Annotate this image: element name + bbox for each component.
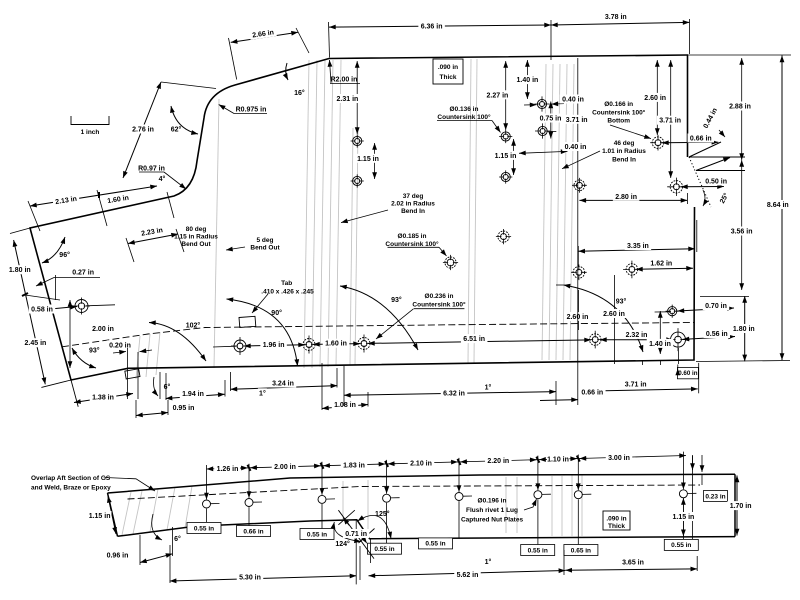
svg-text:0.55 in: 0.55 in [528, 547, 548, 554]
dim 3.71 in bottom [579, 389, 697, 391]
svg-text:Tab: Tab [281, 280, 292, 287]
svg-text:1.15 in: 1.15 in [89, 513, 111, 520]
dim 0.75 in [550, 102, 552, 139]
hole H20 countersink [589, 334, 601, 346]
svg-text:2.76 in: 2.76 in [132, 126, 154, 133]
bend line (gray) bottom view cluster [122, 492, 131, 535]
dim 0.56 in [683, 337, 736, 340]
left edge extension below corner [71, 380, 78, 407]
svg-text:6.36 in: 6.36 in [421, 23, 443, 30]
svg-text:0.23 in: 0.23 in [705, 493, 725, 500]
dim 8.64 in [781, 56, 783, 361]
dim 0.66 in notch [662, 141, 718, 144]
dim 1.40 in right [659, 311, 661, 354]
dim 2.66 in [231, 32, 298, 42]
thickness note box main [433, 59, 463, 84]
top-left edge extension [10, 228, 30, 234]
svg-text:Ø0.236 in: Ø0.236 in [425, 293, 454, 300]
hole H8 [501, 172, 510, 181]
dim 3.65 in [565, 569, 697, 570]
svg-text:Ø0.185 in: Ø0.185 in [398, 233, 427, 240]
dim 1.62 in [636, 268, 693, 269]
svg-text:1°: 1° [485, 558, 492, 566]
svg-text:6°: 6° [164, 383, 171, 391]
svg-text:5.62 in: 5.62 in [457, 572, 479, 579]
strip hole S6 [534, 491, 542, 499]
dim 1.80 in right [744, 296, 746, 361]
dim 5.62 in [369, 571, 566, 576]
svg-text:0.50 in: 0.50 in [705, 178, 727, 185]
svg-text:93°: 93° [89, 346, 100, 354]
main part right edge upper [687, 55, 689, 157]
dim 0.66 in bottom [540, 399, 578, 402]
dim 1.08 in [322, 405, 368, 409]
svg-text:Ø0.166 in: Ø0.166 in [604, 101, 633, 108]
svg-text:125°: 125° [375, 510, 390, 518]
svg-text:1.70 in: 1.70 in [730, 503, 752, 510]
svg-text:1.62 in: 1.62 in [650, 260, 672, 267]
svg-text:102°: 102° [186, 321, 201, 329]
svg-text:3.65 in: 3.65 in [622, 559, 644, 566]
svg-text:0.66 in: 0.66 in [581, 389, 603, 396]
svg-text:Ø0.196 in: Ø0.196 in [478, 497, 507, 504]
strip top dim chain [207, 456, 687, 470]
extension lines strip holes [206, 465, 208, 499]
svg-text:1.08 in: 1.08 in [334, 402, 356, 409]
svg-text:0.71 in: 0.71 in [345, 531, 367, 538]
svg-text:1.26 in: 1.26 in [217, 466, 239, 473]
svg-text:124°: 124° [335, 540, 350, 548]
svg-text:R2.00 in: R2.00 in [331, 76, 358, 83]
right notch 25 deg bend line dotted [689, 157, 711, 207]
svg-text:.410 x .426 x .245: .410 x .426 x .245 [261, 288, 314, 295]
dim 0.20 in tab [107, 340, 134, 349]
svg-text:2.80 in: 2.80 in [615, 194, 637, 201]
svg-text:0.55 in: 0.55 in [307, 531, 327, 538]
scale bar 1 inch [71, 116, 109, 125]
hole H10 [538, 126, 547, 135]
hole H3 countersink [303, 339, 315, 351]
dim 0.50 in notch [681, 186, 724, 188]
svg-text:96°: 96° [59, 251, 70, 259]
svg-text:3.35 in: 3.35 in [627, 243, 649, 250]
dim 1.40 in top [526, 60, 528, 99]
right notch horizontal lower [696, 170, 745, 172]
svg-text:62°: 62° [171, 125, 182, 133]
svg-text:0.58 in: 0.58 in [31, 306, 53, 313]
svg-text:2.02 in Radius: 2.02 in Radius [391, 200, 435, 207]
svg-text:0.66 in: 0.66 in [690, 135, 712, 142]
hole H16 nutplate [626, 264, 638, 276]
hole H21 [498, 231, 509, 242]
svg-text:3.71 in: 3.71 in [659, 118, 681, 125]
svg-text:Thick: Thick [440, 74, 457, 81]
dim 0.71 in strip [343, 529, 370, 538]
dim 3.35 in [578, 249, 695, 252]
svg-text:R0.975 in: R0.975 in [236, 106, 267, 113]
svg-text:1 inch: 1 inch [81, 129, 100, 136]
svg-text:0.40 in: 0.40 in [565, 144, 587, 151]
svg-text:Countersink 100°: Countersink 100° [592, 108, 646, 116]
svg-text:1.15 in: 1.15 in [673, 514, 695, 521]
svg-text:1.94 in: 1.94 in [182, 391, 204, 398]
strip bottom edge [118, 520, 736, 539]
strip hole S3 [318, 495, 326, 503]
svg-text:1.15 in Radius: 1.15 in Radius [174, 233, 218, 240]
svg-text:0.55 in: 0.55 in [374, 546, 394, 553]
hole H15 [573, 267, 585, 279]
right notch tab edge lower [696, 158, 730, 171]
svg-text:3.78 in: 3.78 in [605, 14, 627, 21]
svg-text:2.31 in: 2.31 in [337, 96, 359, 103]
strip hole S7 [574, 491, 582, 499]
strip hole S5 [455, 493, 463, 501]
dim 0.58 in [29, 307, 77, 312]
dim 1.96 in [244, 345, 305, 346]
svg-text:5 deg: 5 deg [257, 237, 274, 244]
svg-text:0.66 in: 0.66 in [243, 528, 263, 535]
angle 62 deg [171, 106, 198, 134]
svg-text:3.56 in: 3.56 in [731, 228, 753, 235]
dim 1.15 in strip right [682, 498, 684, 536]
dim 0.44 in rotated [700, 104, 720, 132]
line left of H2 [213, 345, 236, 348]
dim 0.23 in [704, 491, 728, 502]
strip hole S1 [203, 500, 211, 508]
svg-text:2.20 in: 2.20 in [487, 458, 509, 465]
dim 0.60 in boxed [677, 367, 698, 378]
svg-text:.090 in: .090 in [606, 515, 626, 522]
dim 2.13 in / 1.60 in [30, 186, 157, 206]
svg-text:Bend In: Bend In [612, 156, 636, 163]
dim 3.78 in [551, 22, 690, 25]
hole H11 [574, 180, 585, 191]
0.55 boxes [187, 523, 221, 534]
chain junction arrows [240, 467, 248, 469]
svg-text:Ø0.136 in: Ø0.136 in [450, 106, 479, 113]
hole H5 [353, 136, 362, 145]
line right of H1 [86, 305, 115, 306]
hole H2 countersink [234, 340, 246, 352]
dim 6.32 in [344, 392, 556, 396]
dim 3.24 in [231, 386, 338, 390]
right notch horizontal upper [689, 156, 745, 158]
svg-text:Bend Out: Bend Out [181, 241, 211, 248]
svg-text:3.71 in: 3.71 in [566, 117, 588, 124]
svg-text:Flush rivet 1 Lug: Flush rivet 1 Lug [466, 507, 518, 514]
dim 1.15 in strip left [108, 496, 116, 534]
svg-text:3.24 in: 3.24 in [272, 380, 294, 387]
svg-text:0.55 in: 0.55 in [425, 541, 445, 548]
dim 0.40 in top [524, 104, 537, 106]
svg-text:8.64 in: 8.64 in [767, 202, 789, 209]
svg-text:4°: 4° [159, 175, 166, 183]
dim 1.15 in left holes [374, 143, 376, 179]
svg-text:2.60 in: 2.60 in [644, 95, 666, 102]
thickness note box strip [603, 511, 630, 530]
hole H12 countersink bottom [652, 137, 664, 149]
hole H6 [353, 176, 362, 185]
svg-text:0.60 in: 0.60 in [678, 370, 697, 377]
tab rectangle [239, 316, 256, 327]
svg-text:2.32 in: 2.32 in [626, 332, 648, 339]
svg-text:Countersink 100°: Countersink 100° [437, 113, 491, 121]
svg-text:0.56 in: 0.56 in [706, 331, 728, 338]
svg-text:0.75 in: 0.75 in [540, 115, 562, 122]
dim 1.38 in [74, 394, 133, 403]
angle 6 deg [163, 382, 172, 391]
dim 2.60 in right [601, 309, 628, 318]
dim 1.15 in center holes [513, 139, 515, 175]
dim 2.27 in [505, 61, 507, 130]
dim 0.96 in [140, 554, 173, 563]
svg-text:6.51 in: 6.51 in [463, 336, 485, 343]
hole H7 countersink [501, 132, 510, 141]
svg-text:and Weld, Braze or Epoxy: and Weld, Braze or Epoxy [31, 484, 111, 491]
svg-text:1.40 in: 1.40 in [517, 77, 539, 84]
dim 0.40 in second [519, 151, 568, 153]
strip right end edge [734, 474, 736, 536]
dim 0.95 in [136, 413, 168, 416]
svg-text:1°: 1° [259, 389, 266, 397]
dim 5.30 in [170, 576, 357, 581]
angle 6 deg strip [173, 534, 182, 543]
svg-text:0.55 in: 0.55 in [194, 525, 214, 532]
svg-text:93°: 93° [616, 297, 627, 305]
dim 2.60 in left [578, 290, 580, 330]
dim 2.00 in [69, 300, 71, 368]
svg-text:46 deg: 46 deg [614, 140, 635, 147]
svg-text:5.30 in: 5.30 in [239, 575, 261, 582]
extension lines top dims [329, 22, 330, 58]
dim 1.94 in [166, 394, 225, 398]
svg-text:1.83 in: 1.83 in [343, 462, 365, 469]
strip left end edge [108, 493, 118, 536]
svg-text:1.60 in: 1.60 in [325, 341, 347, 348]
svg-text:3.71 in: 3.71 in [625, 381, 647, 388]
svg-text:2.27 in: 2.27 in [487, 92, 509, 99]
dim 2.32 in [600, 339, 673, 341]
svg-text:2.60 in: 2.60 in [603, 311, 625, 318]
dim 2.60 in upper right [656, 60, 658, 135]
dim 1.60 in holes [313, 343, 360, 346]
svg-text:2.00 in: 2.00 in [274, 464, 296, 471]
main part outline [30, 55, 695, 380]
dim 0.70 in [678, 308, 735, 311]
hole H18 [668, 307, 677, 316]
dim 6.51 in [368, 340, 591, 344]
dim 3.71 in upper right [670, 60, 672, 178]
svg-text:0.27 in: 0.27 in [72, 270, 94, 277]
svg-text:0.55 in: 0.55 in [671, 542, 691, 549]
svg-text:2.10 in: 2.10 in [410, 460, 432, 467]
svg-text:2.00 in: 2.00 in [92, 326, 114, 333]
svg-text:6°: 6° [174, 535, 181, 543]
svg-text:.090 in: .090 in [438, 64, 458, 71]
bottom edge extension left [41, 380, 71, 387]
bend cross lines strip [338, 510, 374, 558]
svg-text:37 deg: 37 deg [403, 193, 424, 200]
hole H13 nutplate [670, 181, 682, 193]
svg-text:Countersink 100°: Countersink 100° [412, 300, 466, 308]
hole H17 countersink [445, 257, 456, 268]
strip hole S8 [679, 490, 687, 498]
svg-text:1.40 in: 1.40 in [649, 341, 671, 348]
dim 1.80 in / 2.45 in chained [14, 240, 46, 384]
hole H1 countersink [75, 300, 88, 313]
dim 2.76 in [123, 82, 161, 178]
svg-text:0.70 in: 0.70 in [705, 303, 727, 310]
svg-text:0.95 in: 0.95 in [173, 405, 195, 412]
svg-text:1°: 1° [485, 383, 492, 391]
dim 2.23 in [128, 234, 178, 244]
svg-text:1.80 in: 1.80 in [9, 267, 31, 274]
svg-text:Bend Out: Bend Out [250, 244, 280, 251]
svg-text:1.80 in: 1.80 in [733, 326, 755, 333]
hole H4 countersink [358, 338, 370, 350]
strip hole S4 [383, 494, 391, 502]
svg-text:Captured Nut Plates: Captured Nut Plates [461, 516, 524, 523]
vertical dim line 3.71 center [577, 58, 579, 405]
svg-text:16°: 16° [294, 89, 305, 97]
strip top edge [108, 474, 736, 493]
dashed bend line [62, 323, 694, 347]
dim 2.88 / 3.56 chain [741, 58, 743, 160]
svg-text:1.15 in: 1.15 in [357, 156, 379, 163]
bend line (gray) main view cluster [214, 99, 219, 368]
svg-text:6.32 in: 6.32 in [443, 390, 465, 397]
dim 2.31 in [356, 61, 358, 134]
svg-text:Bend In: Bend In [401, 208, 425, 215]
svg-text:1.38 in: 1.38 in [92, 395, 114, 402]
svg-text:Thick: Thick [608, 523, 625, 530]
svg-text:1.96 in: 1.96 in [263, 342, 285, 349]
hole H9 [537, 99, 546, 108]
svg-text:1.15 in: 1.15 in [495, 153, 517, 160]
right notch tab edge upper [689, 142, 721, 157]
svg-text:93°: 93° [391, 296, 402, 304]
svg-text:1.01 in Radius: 1.01 in Radius [602, 148, 646, 155]
svg-text:0.65 in: 0.65 in [571, 547, 591, 554]
svg-text:1.10 in: 1.10 in [547, 457, 569, 464]
svg-text:Overlap Aft Section of GS: Overlap Aft Section of GS [31, 475, 111, 482]
svg-text:3.00 in: 3.00 in [608, 455, 630, 462]
svg-text:2.45 in: 2.45 in [25, 340, 47, 347]
dim 2.80 in lower [579, 199, 687, 201]
angle 93 deg right [615, 296, 628, 305]
svg-text:0.40 in: 0.40 in [562, 96, 584, 103]
svg-text:80 deg: 80 deg [186, 226, 207, 233]
svg-text:Countersink 100°: Countersink 100° [385, 240, 439, 248]
dim 1.70 in [736, 476, 738, 536]
hole H19 large [671, 332, 686, 347]
svg-text:Bottom: Bottom [607, 118, 630, 125]
svg-text:0.96 in: 0.96 in [107, 552, 129, 559]
svg-text:2.88 in: 2.88 in [729, 103, 751, 110]
svg-text:R0.97 in: R0.97 in [138, 165, 165, 172]
strip dashed bend line [128, 485, 701, 499]
dim 6.36 in [329, 25, 551, 27]
strip hole S2 [245, 499, 253, 507]
